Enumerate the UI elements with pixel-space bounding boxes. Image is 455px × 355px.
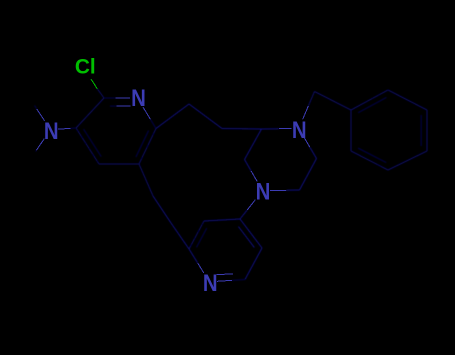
svg-text:N: N bbox=[292, 116, 307, 143]
svg-text:N: N bbox=[44, 117, 59, 144]
svg-text:Cl: Cl bbox=[75, 55, 96, 78]
svg-text:N: N bbox=[131, 84, 146, 111]
svg-text:N: N bbox=[256, 178, 271, 205]
svg-text:N: N bbox=[203, 269, 218, 296]
